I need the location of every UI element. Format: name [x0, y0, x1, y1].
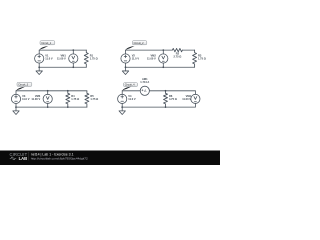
- svg-text:LAB: LAB: [19, 156, 28, 161]
- svg-text:1.75 Ω: 1.75 Ω: [71, 97, 79, 101]
- svg-text:Circuit_1: Circuit_1: [41, 42, 51, 45]
- svg-text:http://circuitlab.com/c6pk795f: http://circuitlab.com/c6pk795f3pc44dgk72: [31, 157, 88, 161]
- svg-text:Circuit_2: Circuit_2: [134, 42, 144, 45]
- svg-text:1.75 Ω: 1.75 Ω: [90, 97, 98, 101]
- svg-text:11.0 V: 11.0 V: [128, 97, 136, 101]
- svg-text:11.0 V: 11.0 V: [45, 57, 53, 61]
- svg-text:11.00 V: 11.00 V: [57, 57, 66, 61]
- svg-text:11.00 V: 11.00 V: [182, 97, 191, 101]
- svg-text:1.75 Ω: 1.75 Ω: [198, 57, 206, 61]
- svg-text:11.0 V: 11.0 V: [22, 97, 30, 101]
- svg-text:1.75 Ω: 1.75 Ω: [90, 57, 98, 61]
- svg-text:11.0 V: 11.0 V: [132, 57, 140, 61]
- svg-text:11.00 V: 11.00 V: [31, 97, 40, 101]
- svg-text:1.744 A: 1.744 A: [140, 80, 149, 84]
- svg-text:4.75 Ω: 4.75 Ω: [169, 97, 177, 101]
- svg-text:2.75 Ω: 2.75 Ω: [173, 54, 181, 58]
- svg-text:11.00 V: 11.00 V: [147, 57, 156, 61]
- svg-text:Circuit_3: Circuit_3: [18, 84, 28, 87]
- svg-text:Circuit_4: Circuit_4: [125, 84, 135, 87]
